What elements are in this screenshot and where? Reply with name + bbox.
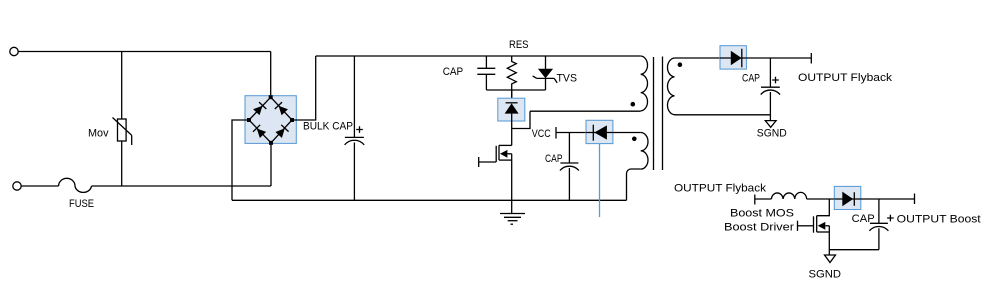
- diode VCC rectifier (highlighted): [586, 120, 613, 143]
- transformer T1 aux winding: [641, 133, 648, 170]
- wire MOV bottom: [121, 141, 123, 186]
- bridge diode D-topright: [275, 102, 289, 116]
- wire blue selected stub: [599, 144, 601, 217]
- wire DC-minus rail: [232, 199, 627, 201]
- svg-text:CAP: CAP: [742, 73, 760, 85]
- svg-text:CAP: CAP: [443, 66, 464, 78]
- wire primary bottom lead: [530, 110, 641, 112]
- wire bridge bottom lead: [270, 143, 272, 186]
- wire clamp diode to drain node: [511, 121, 513, 145]
- wire DC-plus rail: [316, 55, 641, 57]
- svg-text:FUSE: FUSE: [69, 198, 94, 210]
- wire sgnd stub flyback: [769, 115, 771, 121]
- diode clamp (highlighted): [498, 90, 525, 121]
- terminal AC-N (bottom left input): [13, 182, 21, 190]
- wire bridge left to DC-minus: [232, 120, 249, 200]
- svg-text:Boost Driver: Boost Driver: [724, 222, 794, 234]
- wire snubber node: [486, 89, 545, 91]
- wire drain node to primary bottom: [512, 111, 530, 128]
- wire diode to output terminal: [746, 57, 811, 59]
- inductor L boost: [771, 192, 806, 199]
- capacitor CAP vcc: [560, 133, 579, 201]
- wire AC top rail: [18, 51, 270, 53]
- transformer T1 primary winding: [641, 56, 648, 111]
- wire diode to boost terminal: [861, 198, 915, 200]
- transistor Q1 primary MOSFET: [479, 145, 512, 167]
- wire diode to aux winding: [613, 132, 641, 134]
- bridge rectifier BR1: [245, 95, 296, 145]
- bridge diode D-topleft: [253, 102, 267, 116]
- diode flyback output (highlighted): [720, 46, 746, 69]
- terminal OUTPUT Boost: [914, 194, 916, 205]
- phase dot primary: [631, 102, 636, 107]
- plus sign flyback cap: [772, 77, 779, 84]
- bridge diode D-bottomright: [275, 125, 289, 139]
- resistor RES: [507, 56, 516, 98]
- ground SGND flyback: [765, 121, 776, 128]
- svg-text:CAP: CAP: [545, 153, 563, 165]
- svg-text:Mov: Mov: [88, 128, 109, 140]
- capacitor CAP flyback out: [761, 58, 780, 115]
- wire secondary top lead: [675, 57, 721, 59]
- wire fuse to bridge bottom: [92, 185, 272, 187]
- svg-text:OUTPUT Flyback: OUTPUT Flyback: [674, 183, 767, 195]
- svg-text:TVS: TVS: [557, 73, 578, 85]
- plus sign boost cap: [887, 215, 894, 222]
- svg-text:BULK CAP: BULK CAP: [303, 121, 353, 133]
- svg-text:Boost MOS: Boost MOS: [730, 208, 794, 220]
- transformer T1 secondary winding: [667, 58, 674, 115]
- wire port to inductor: [755, 198, 772, 200]
- svg-text:OUTPUT Boost: OUTPUT Boost: [897, 214, 981, 226]
- wire terminal to fuse: [21, 185, 58, 187]
- capacitor CAP boost: [869, 199, 888, 250]
- svg-text:OUTPUT Flyback: OUTPUT Flyback: [798, 72, 893, 84]
- bridge diode D-bottomleft: [253, 125, 267, 139]
- diode boost (highlighted): [834, 186, 861, 209]
- wire aux bottom lead: [627, 169, 641, 200]
- capacitor CAP snubber: [477, 56, 495, 90]
- wire VCC to diode: [556, 132, 586, 134]
- ground PGND: [500, 214, 525, 225]
- svg-text:SGND: SGND: [757, 128, 787, 140]
- wire MOV top: [121, 52, 123, 120]
- bridge pin squares: [247, 95, 294, 145]
- wire secondary bottom lead: [675, 114, 771, 116]
- transformer core: [654, 57, 663, 171]
- varistor MOV: [113, 118, 132, 146]
- wire boost source bottom: [828, 226, 830, 255]
- TVS diode: [533, 56, 558, 90]
- transistor Q2 boost MOSFET: [798, 199, 830, 233]
- terminal OUTPUT Flyback: [810, 53, 812, 64]
- wire bridge top lead: [270, 52, 272, 98]
- fuse FUSE: [59, 178, 92, 192]
- wire source to ground: [511, 154, 513, 214]
- wire bridge right to DC-plus: [292, 56, 316, 120]
- svg-text:SGND: SGND: [809, 269, 842, 281]
- phase dot secondary: [678, 62, 683, 67]
- svg-text:RES: RES: [509, 39, 529, 51]
- svg-text:CAP: CAP: [852, 213, 875, 225]
- wire inductor to diode: [807, 198, 835, 200]
- ground SGND boost: [825, 255, 836, 263]
- capacitor BULK CAP: [345, 56, 365, 200]
- phase dot aux: [632, 137, 637, 142]
- terminal AC-L (top left input): [10, 47, 18, 55]
- plus sign bulk cap: [356, 126, 363, 133]
- svg-text:VCC: VCC: [532, 128, 551, 140]
